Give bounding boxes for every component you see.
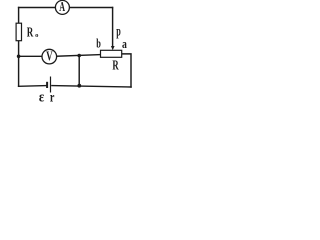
svg-text:ε: ε [39, 90, 44, 106]
slider arrow head p [111, 46, 115, 50]
svg-text:p: p [116, 25, 121, 39]
svg-text:R: R [27, 26, 34, 40]
voltmeter U2 circle [42, 49, 57, 64]
wire voltmeter row left [19, 55, 42, 57]
svg-text:r: r [50, 89, 55, 105]
node A junction dot left [17, 55, 21, 59]
rheostat R box [101, 50, 122, 57]
svg-text:A: A [59, 0, 65, 15]
wire voltmeter row right to rheostat b-end [57, 55, 101, 57]
svg-text:V: V [46, 50, 53, 64]
ammeter U1 circle [55, 0, 69, 14]
label R0 [27, 26, 39, 40]
wire connector vertical [78, 56, 80, 86]
wire right (rheostat a-end down to bottom) [122, 54, 131, 87]
node junction dot lower mid [77, 84, 81, 88]
battery long plate [50, 77, 52, 93]
wire top [19, 7, 113, 9]
svg-text:a: a [122, 38, 127, 51]
wire bottom right (battery right lead) [52, 86, 131, 87]
wire left [18, 8, 20, 87]
wire bottom left (battery left lead) [19, 85, 46, 88]
svg-text:b: b [96, 37, 101, 51]
node junction dot upper mid [77, 54, 81, 58]
battery short plate [46, 82, 48, 88]
wire slider drop [112, 8, 114, 47]
svg-text:R: R [112, 59, 119, 73]
resistor R0 box [16, 23, 21, 41]
